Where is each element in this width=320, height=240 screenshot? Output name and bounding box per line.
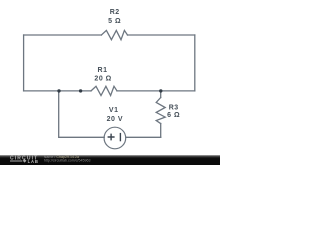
wire R3 bottom lead [160,124,162,138]
V1 plus sign [108,134,115,141]
junction node A [57,89,60,92]
svg-text:LAB: LAB [28,159,39,164]
svg-text:V1: V1 [109,107,119,114]
wire top-left segment [24,34,102,36]
resistor R2 [101,30,127,39]
wire left [23,35,25,91]
svg-text:20 Ω: 20 Ω [94,76,111,83]
junction node B [79,89,82,92]
footer watermark bar [0,155,220,165]
svg-text:R2: R2 [110,9,120,16]
svg-text:5 Ω: 5 Ω [108,18,121,25]
wire R3 top lead [160,91,162,98]
wire V1 left branch [59,91,104,137]
junction node C [159,89,162,92]
wire middle-left segment [24,90,91,92]
svg-text:6 Ω: 6 Ω [167,112,180,119]
svg-text:http://circuitlab.com/c/545963: http://circuitlab.com/c/545963 [44,158,91,162]
wire right [194,35,196,91]
svg-text:R3: R3 [169,105,179,112]
svg-text:20 V: 20 V [107,116,123,123]
CircuitLab logo [10,155,39,164]
resistor R1 [91,86,117,95]
wire top-right segment [128,34,195,36]
wire V1 to R3 [126,136,161,138]
V1 minus bar [119,133,121,141]
voltage source V1 circle [104,127,126,149]
resistor R3 [156,98,165,124]
svg-text:R1: R1 [98,67,108,74]
wire middle-right segment [117,90,195,92]
